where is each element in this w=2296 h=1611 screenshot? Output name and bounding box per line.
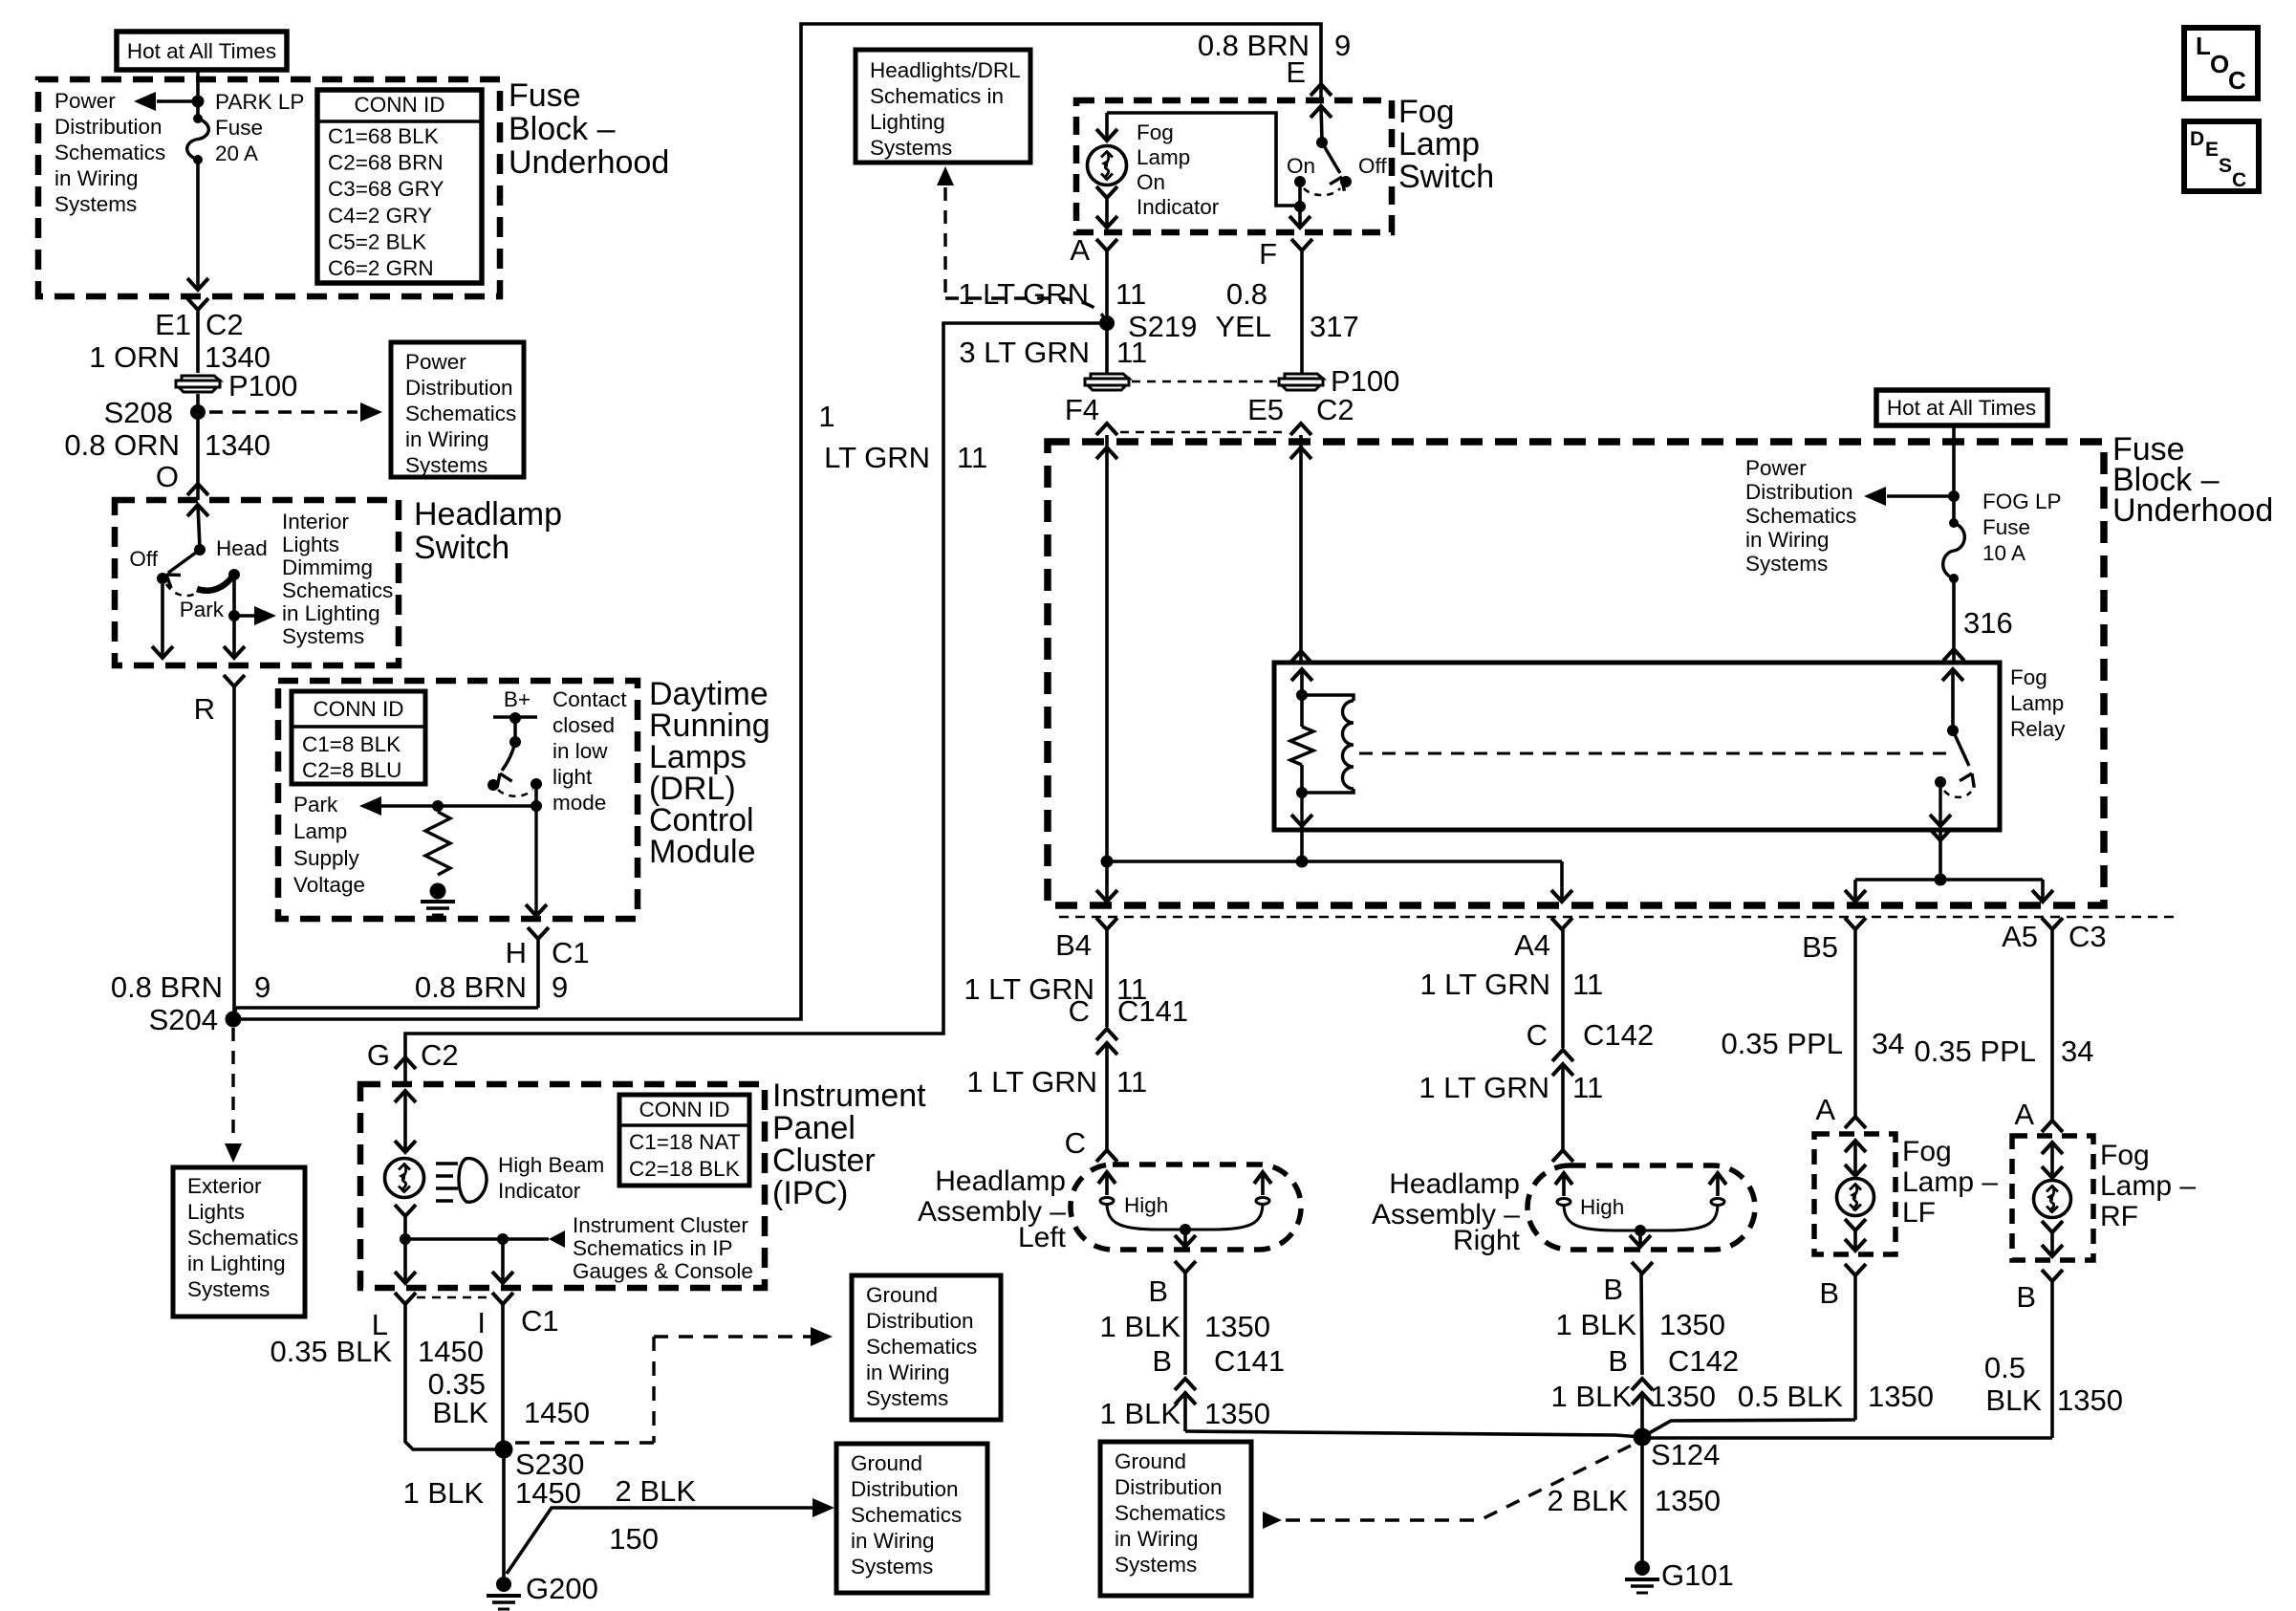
svg-text:C: C — [2232, 169, 2246, 191]
wire: below indicator lamp — [1096, 186, 1117, 198]
svg-text:Schematics in IP: Schematics in IP — [573, 1236, 733, 1260]
svg-text:C1: C1 — [521, 1304, 559, 1338]
svg-text:BLK: BLK — [432, 1396, 488, 1429]
svg-text:LT GRN: LT GRN — [824, 441, 930, 474]
svg-text:closed: closed — [552, 713, 615, 737]
dashed reference arrow: S208 to power distribution schematics — [209, 410, 357, 413]
junction: coil output on bus — [1296, 856, 1309, 868]
svg-text:Lamp: Lamp — [293, 819, 347, 843]
pin R of headlamp switch — [224, 675, 245, 686]
svg-text:Headlamp: Headlamp — [935, 1165, 1066, 1197]
relay switch pivot — [1947, 725, 1959, 736]
wire: A5 to RF fog lamp (0.35 PPL 34) — [2050, 929, 2054, 1121]
svg-text:Fog: Fog — [2010, 665, 2047, 689]
svg-text:9: 9 — [254, 970, 271, 1004]
svg-text:150: 150 — [609, 1522, 659, 1556]
svg-text:Systems: Systems — [187, 1277, 270, 1301]
svg-text:Distribution: Distribution — [851, 1477, 959, 1501]
svg-text:Distribution: Distribution — [405, 376, 513, 400]
svg-text:Underhood: Underhood — [509, 144, 669, 181]
conn id box: IPC — [619, 1095, 749, 1186]
svg-text:A: A — [1815, 1093, 1835, 1126]
svg-text:Ground: Ground — [866, 1283, 938, 1307]
connector P100 grommet F4 — [1091, 374, 1129, 379]
svg-text:On: On — [1287, 154, 1315, 178]
wire: relay switched output down — [1939, 788, 1941, 826]
svg-text:C2=18 BLK: C2=18 BLK — [629, 1157, 740, 1181]
junction: indicator to IPC ground — [400, 1233, 411, 1245]
wire: S230 to ground G200 (1 BLK 1450) — [502, 1449, 506, 1578]
svg-text:in Wiring: in Wiring — [54, 166, 139, 190]
svg-text:C4=2 GRY: C4=2 GRY — [328, 204, 432, 228]
svg-text:E5: E5 — [1247, 393, 1284, 426]
svg-text:Indicator: Indicator — [1137, 195, 1220, 219]
svg-text:1 LT GRN: 1 LT GRN — [966, 1065, 1097, 1099]
LF fog lamp bulb — [1845, 1141, 1866, 1152]
svg-text:Instrument: Instrument — [772, 1078, 926, 1114]
park blade arc (thick) — [197, 573, 235, 591]
chevron above relay on E5 wire — [1290, 651, 1311, 663]
pin A4 connector — [1551, 918, 1572, 929]
svg-text:C141: C141 — [1117, 994, 1188, 1028]
wire: C141 to left headlamp — [1105, 1043, 1109, 1150]
wire: C142 to right headlamp — [1561, 1064, 1565, 1150]
svg-text:S208: S208 — [104, 396, 173, 429]
svg-text:1 BLK: 1 BLK — [1551, 1380, 1633, 1413]
wire: A to S219 (1 LT GRN 11) — [1105, 250, 1109, 373]
svg-text:Switch: Switch — [1398, 159, 1494, 195]
svg-text:C142: C142 — [1583, 1018, 1654, 1052]
svg-text:9: 9 — [552, 970, 568, 1004]
wire: RF fog lamp ground 0.5 BLK 1350 — [2050, 1281, 2054, 1438]
svg-text:Lights: Lights — [187, 1200, 245, 1224]
svg-text:F4: F4 — [1065, 393, 1099, 426]
svg-text:Systems: Systems — [1745, 552, 1828, 576]
wire: I pin 0.35 BLK 1450 to S230 — [501, 1304, 505, 1449]
pin B5 connector — [1845, 918, 1866, 929]
contact Off (fog switch) — [1340, 176, 1352, 187]
DRL switch contact left — [487, 779, 499, 791]
junction: right bulb ground side — [1635, 1225, 1646, 1236]
arrow up on E5 wire inside fuse block — [1290, 447, 1311, 459]
fuse block underhood 2 dashed outline — [1048, 442, 2104, 905]
svg-text:Gauges & Console: Gauges & Console — [573, 1259, 753, 1283]
svg-text:BLK: BLK — [1985, 1383, 2042, 1417]
svg-text:Fuse: Fuse — [215, 116, 263, 140]
svg-text:B: B — [1608, 1344, 1628, 1378]
svg-text:Distribution: Distribution — [1115, 1475, 1223, 1499]
svg-text:Off: Off — [1358, 154, 1387, 178]
wire: F4 into fuse block — [1105, 435, 1109, 861]
svg-text:Right: Right — [1453, 1225, 1521, 1256]
svg-text:O: O — [156, 460, 179, 493]
DRL internal switch blade from B+ — [502, 742, 515, 771]
svg-text:0.35 BLK: 0.35 BLK — [270, 1335, 392, 1368]
svg-text:in Wiring: in Wiring — [1745, 528, 1830, 552]
svg-text:B: B — [1603, 1273, 1623, 1306]
wire: below P100 — [196, 394, 200, 500]
svg-text:10 A: 10 A — [1982, 541, 2025, 565]
ground symbol (DRL internal) — [421, 900, 455, 903]
ground G200 — [496, 1577, 511, 1592]
svg-text:C5=2 BLK: C5=2 BLK — [328, 229, 426, 253]
connector P100 grommet E5 — [1285, 374, 1323, 379]
svg-text:1350: 1350 — [1655, 1484, 1721, 1517]
fuse: PARK LP 20 A — [193, 114, 203, 123]
reference box: Exterior Lights Schematics in Lighting Systems — [173, 1167, 305, 1317]
wire: PARK LP fuse output — [196, 160, 200, 290]
svg-text:Switch: Switch — [414, 530, 509, 566]
svg-text:B4: B4 — [1055, 928, 1092, 962]
high beam indicator lamp (IPC) — [385, 1159, 424, 1198]
IPC dashed outline — [360, 1084, 765, 1288]
svg-text:C: C — [1527, 1018, 1548, 1052]
svg-text:Head: Head — [216, 536, 268, 560]
node S204 — [226, 1012, 242, 1028]
svg-text:C: C — [1065, 1126, 1086, 1160]
svg-text:A4: A4 — [1514, 928, 1550, 962]
wire: feed into headlamp switch common — [187, 505, 208, 516]
dashed arc between DRL contacts — [498, 790, 532, 796]
svg-text:20 A: 20 A — [215, 142, 258, 165]
svg-text:Headlamp: Headlamp — [414, 496, 562, 533]
wire: Off contact to switch output (down) — [161, 584, 164, 658]
svg-text:Schematics: Schematics — [866, 1335, 977, 1359]
wire: LF fog lamp ground 0.5 BLK 1350 — [1853, 1275, 1857, 1420]
svg-text:in Wiring: in Wiring — [866, 1361, 950, 1384]
reference arrow to interior lights dimming schematics — [234, 614, 255, 617]
svg-text:34: 34 — [1872, 1027, 1904, 1060]
svg-text:C: C — [1069, 994, 1090, 1028]
svg-text:Park: Park — [293, 793, 338, 816]
svg-text:Supply: Supply — [293, 846, 360, 870]
svg-text:in Lighting: in Lighting — [187, 1252, 286, 1275]
resistor (DRL internal pull-down) — [425, 812, 450, 875]
wire: S219 to IPC G/C2 (1 LT GRN 11) — [405, 323, 1099, 1084]
wire: indicator feed down to lamp — [1105, 113, 1109, 141]
svg-text:2 BLK: 2 BLK — [616, 1474, 697, 1508]
junction: coil top — [1296, 689, 1308, 701]
svg-text:C1: C1 — [552, 936, 590, 969]
svg-text:1450: 1450 — [418, 1335, 484, 1368]
dashed arc fog switch — [1304, 188, 1340, 195]
wire: E5 into fuse block to relay — [1299, 435, 1303, 663]
svg-text:0.35 PPL: 0.35 PPL — [1721, 1027, 1843, 1060]
svg-text:Lamp –: Lamp – — [1902, 1166, 1998, 1198]
svg-text:3 LT GRN: 3 LT GRN — [959, 336, 1090, 369]
fog switch pivot — [1316, 137, 1328, 148]
svg-text:Indicator: Indicator — [498, 1179, 581, 1203]
svg-text:Contact: Contact — [552, 687, 627, 711]
conn id box: DRL module — [292, 691, 425, 784]
svg-text:1350: 1350 — [1204, 1310, 1270, 1343]
svg-text:High: High — [1124, 1193, 1168, 1217]
svg-text:Systems: Systems — [54, 192, 137, 216]
svg-text:G101: G101 — [1661, 1558, 1734, 1592]
svg-text:1 LT GRN: 1 LT GRN — [958, 277, 1089, 311]
svg-text:Left: Left — [1018, 1222, 1067, 1253]
pin B of LF fog lamp — [1845, 1264, 1866, 1275]
svg-text:C3: C3 — [2069, 920, 2107, 953]
wire: On contact to indicator branch and output F — [1107, 113, 1300, 206]
svg-text:B+: B+ — [504, 687, 531, 711]
svg-text:Power: Power — [405, 350, 466, 374]
svg-text:Lights: Lights — [282, 533, 339, 556]
svg-text:Park: Park — [180, 598, 225, 621]
headlamp switch dashed outline — [115, 500, 399, 665]
svg-text:11: 11 — [1572, 968, 1603, 1001]
relay resistor — [1300, 695, 1304, 727]
internal ground node dot — [430, 883, 446, 900]
svg-text:Systems: Systems — [870, 136, 952, 160]
svg-text:Underhood: Underhood — [2112, 492, 2273, 529]
svg-text:E1: E1 — [155, 308, 191, 341]
svg-text:317: 317 — [1310, 310, 1359, 343]
dashed reference: S124 to ground distribution schematics — [1480, 1446, 1631, 1520]
wire: S204 to fog lamp switch E (0.8 BRN 9) long route — [233, 24, 1321, 1019]
wire: E into switch — [1310, 106, 1332, 118]
svg-text:0.8: 0.8 — [1226, 277, 1267, 311]
svg-text:in Wiring: in Wiring — [1115, 1527, 1199, 1551]
node S124 — [1634, 1428, 1652, 1447]
wire: 1 BLK 1350 to S124 — [1183, 1393, 1187, 1431]
svg-text:Fog: Fog — [1398, 94, 1455, 130]
svg-text:Schematics: Schematics — [851, 1503, 962, 1527]
wire: bus to B4 pin — [1105, 861, 1109, 902]
pin B of left headlamp — [1175, 1261, 1196, 1273]
svg-text:mode: mode — [552, 791, 606, 815]
svg-text:Systems: Systems — [405, 453, 487, 477]
junction: PARK LP feed — [192, 96, 205, 108]
svg-text:1: 1 — [818, 400, 834, 433]
svg-text:in Wiring: in Wiring — [851, 1529, 935, 1553]
svg-text:High Beam: High Beam — [498, 1153, 604, 1177]
B+ terminal bar and stem — [493, 715, 537, 719]
pin B of RF fog lamp — [2042, 1270, 2063, 1281]
reference box: Headlights/DRL Schematics in Lighting Systems — [856, 50, 1030, 163]
node S219 — [1099, 316, 1115, 331]
svg-text:D: D — [2190, 128, 2204, 150]
node S208 — [190, 404, 206, 420]
svg-text:E: E — [2205, 139, 2219, 161]
DESC legend box — [2184, 121, 2259, 191]
svg-text:Distribution: Distribution — [54, 115, 162, 139]
wire: 1 ORN 1340 — [196, 310, 200, 373]
svg-text:0.5 BLK: 0.5 BLK — [1738, 1380, 1844, 1413]
svg-text:FOG LP: FOG LP — [1982, 490, 2062, 513]
reference box: Ground Distribution Schematics in Wiring Systems (near S124) — [1100, 1442, 1251, 1596]
left headlamp high-beam bulb — [1098, 1172, 1116, 1184]
pin L connector C1 of IPC — [395, 1293, 416, 1304]
dashed actuation link: coil to switch — [1359, 752, 1946, 755]
reference box: Power Distribution Schematics in Wiring Systems — [391, 342, 524, 477]
connector P100 grommet (ORN wire) — [182, 376, 220, 381]
svg-text:B: B — [2016, 1280, 2036, 1314]
fog switch blade toward Off — [1322, 142, 1340, 173]
svg-text:F: F — [1259, 237, 1277, 271]
svg-text:0.5: 0.5 — [1984, 1351, 2025, 1384]
svg-text:A: A — [2014, 1098, 2034, 1131]
wire: IPC internal ground rail — [405, 1237, 503, 1241]
svg-text:A: A — [1070, 233, 1090, 267]
label box: Hot at All Times (right) — [1876, 390, 2047, 425]
svg-text:Relay: Relay — [2010, 717, 2066, 741]
wire: bus to A4 pin — [1560, 861, 1564, 902]
dashed arc relay switch — [1944, 791, 1971, 797]
wire: DRL output to pin H — [534, 806, 537, 916]
wire: B4 down to C141 — [1105, 929, 1109, 1027]
LOC legend box — [2184, 28, 2258, 98]
svg-text:G: G — [367, 1038, 390, 1072]
wire: A4 down to C142 — [1561, 929, 1565, 1048]
connector boundary dashed line under fuse block 2 — [1059, 916, 2179, 918]
svg-text:Panel: Panel — [772, 1110, 856, 1146]
svg-text:11: 11 — [1116, 1065, 1147, 1099]
fog lamp switch dashed outline — [1076, 100, 1392, 232]
svg-text:Lamp –: Lamp – — [2100, 1170, 2196, 1202]
svg-text:1340: 1340 — [205, 428, 271, 462]
svg-text:Systems: Systems — [282, 624, 364, 648]
wire: right headlamp ground 1 BLK 1350 — [1641, 1274, 1642, 1375]
svg-text:Schematics: Schematics — [405, 402, 516, 425]
high beam icon (headlight glyph) — [436, 1162, 458, 1165]
right headlamp high-beam bulb — [1555, 1173, 1572, 1185]
svg-text:E: E — [1286, 55, 1306, 89]
svg-text:C2: C2 — [206, 308, 244, 341]
svg-text:R: R — [194, 692, 215, 726]
wire: relay switched bus (to B5 and A5) — [1930, 829, 1951, 840]
svg-text:Lamp: Lamp — [1398, 126, 1480, 163]
svg-text:CONN ID: CONN ID — [639, 1098, 730, 1121]
svg-text:A5: A5 — [2002, 920, 2038, 953]
relay switch blade — [1953, 730, 1969, 766]
conn id box: fuse block 1 — [317, 90, 482, 283]
svg-text:Fuse: Fuse — [509, 77, 581, 114]
svg-text:Distribution: Distribution — [866, 1309, 974, 1333]
svg-text:C1=8 BLK: C1=8 BLK — [302, 732, 401, 756]
svg-text:Distribution: Distribution — [1745, 480, 1853, 504]
label box: Hot at All Times (left) — [117, 32, 287, 70]
wire: right headlamp ground to S124 — [1640, 1393, 1644, 1437]
svg-text:P100: P100 — [228, 369, 297, 403]
svg-text:Exterior: Exterior — [187, 1174, 262, 1198]
switch pivot (headlamp switch) — [194, 544, 206, 555]
svg-text:B5: B5 — [1802, 930, 1838, 964]
fuse: FOG LP 10 A — [1949, 518, 1959, 528]
wire: coil bottom to relay output — [1300, 793, 1303, 826]
svg-text:Schematics: Schematics — [1115, 1501, 1225, 1525]
svg-text:2 BLK: 2 BLK — [1548, 1484, 1629, 1517]
svg-text:Instrument Cluster: Instrument Cluster — [573, 1213, 748, 1237]
svg-text:C1=68 BLK: C1=68 BLK — [328, 124, 439, 148]
svg-text:1 BLK: 1 BLK — [403, 1476, 485, 1510]
wire: Park contact down to output with reference arrow — [232, 580, 236, 616]
junction: left bulb ground side — [1180, 1224, 1191, 1235]
ground G101 — [1635, 1560, 1650, 1576]
fog lamp RF dashed outline — [2012, 1136, 2093, 1260]
pin B of right headlamp — [1632, 1262, 1653, 1274]
svg-text:11: 11 — [1116, 336, 1147, 369]
left headlamp assembly dashed outline — [1071, 1165, 1301, 1250]
svg-text:Hot at All Times: Hot at All Times — [1887, 396, 2036, 420]
svg-text:0.8 BRN: 0.8 BRN — [415, 970, 527, 1004]
svg-text:S: S — [2219, 155, 2232, 177]
junction: coil bottom — [1296, 787, 1308, 798]
pin I connector C1 of IPC — [492, 1293, 513, 1304]
wire: F down (0.8 YEL 317) — [1300, 250, 1304, 373]
svg-text:RF: RF — [2100, 1201, 2138, 1232]
svg-text:B: B — [1152, 1344, 1172, 1378]
svg-text:Voltage: Voltage — [293, 873, 365, 897]
svg-text:1 LT GRN: 1 LT GRN — [1419, 968, 1550, 1001]
svg-text:L: L — [2196, 32, 2211, 60]
svg-text:C2=68 BRN: C2=68 BRN — [328, 151, 444, 175]
arrow up on F4 wire inside fuse block — [1096, 447, 1117, 459]
svg-text:Schematics: Schematics — [187, 1226, 298, 1250]
svg-text:Systems: Systems — [1115, 1553, 1197, 1577]
svg-text:1450: 1450 — [515, 1476, 581, 1510]
reference arrow: instrument cluster schematics — [503, 1237, 549, 1240]
svg-text:Fog: Fog — [2100, 1140, 2150, 1171]
svg-text:LF: LF — [1902, 1197, 1936, 1229]
svg-text:PARK LP: PARK LP — [215, 90, 304, 114]
svg-text:in Wiring: in Wiring — [405, 427, 489, 451]
svg-text:11: 11 — [1572, 1071, 1603, 1104]
DRL switch contact right — [531, 778, 542, 790]
svg-text:in Lighting: in Lighting — [282, 601, 380, 625]
svg-text:Fog: Fog — [1902, 1136, 1952, 1167]
svg-text:Fog: Fog — [1137, 120, 1174, 144]
contact On (fog switch) — [1294, 176, 1306, 187]
svg-text:C141: C141 — [1214, 1344, 1285, 1378]
svg-text:Schematics: Schematics — [1745, 504, 1856, 528]
right headlamp assembly dashed outline — [1527, 1165, 1755, 1250]
wires: IPC grounds down to pins L and I — [403, 1239, 407, 1283]
svg-text:S204: S204 — [149, 1003, 218, 1036]
wire: fuse to relay, circuit 316 — [1952, 578, 1956, 663]
svg-text:C2=8 BLU: C2=8 BLU — [302, 758, 401, 782]
wire: B5 to LF fog lamp (0.35 PPL 34) — [1853, 929, 1857, 1117]
svg-text:0.35 PPL: 0.35 PPL — [1914, 1034, 2036, 1068]
wire: arrow to power distribution — [157, 99, 198, 102]
svg-text:On: On — [1137, 170, 1165, 194]
relay switch contact — [1935, 776, 1946, 788]
svg-text:1350: 1350 — [1868, 1380, 1934, 1413]
svg-text:Module: Module — [649, 834, 756, 870]
svg-text:316: 316 — [1963, 606, 2013, 640]
svg-text:1450: 1450 — [524, 1396, 590, 1429]
svg-text:11: 11 — [1116, 277, 1146, 311]
dashed arc between Off and Park — [166, 584, 195, 596]
svg-text:Hot at All Times: Hot at All Times — [127, 39, 276, 63]
svg-text:High: High — [1580, 1195, 1624, 1219]
svg-text:Schematics in: Schematics in — [870, 84, 1004, 108]
dashed reference: S204 down to exterior lights schematics — [231, 1028, 234, 1142]
RF fog lamp bulb — [2042, 1143, 2063, 1154]
DRL control module dashed outline — [278, 681, 638, 919]
svg-text:B: B — [1819, 1276, 1839, 1310]
svg-text:1350: 1350 — [1659, 1308, 1725, 1341]
svg-text:Power: Power — [54, 89, 116, 113]
contact Off — [157, 573, 168, 584]
svg-text:C1=18 NAT: C1=18 NAT — [629, 1130, 741, 1154]
svg-text:0.8 ORN: 0.8 ORN — [64, 428, 180, 462]
reference arrow: to power distribution schematics (fuse block 2) — [1887, 494, 1954, 497]
svg-text:0.8 BRN: 0.8 BRN — [111, 970, 223, 1004]
svg-text:B: B — [1148, 1274, 1168, 1308]
svg-text:G200: G200 — [526, 1572, 598, 1605]
svg-text:11: 11 — [957, 441, 987, 474]
